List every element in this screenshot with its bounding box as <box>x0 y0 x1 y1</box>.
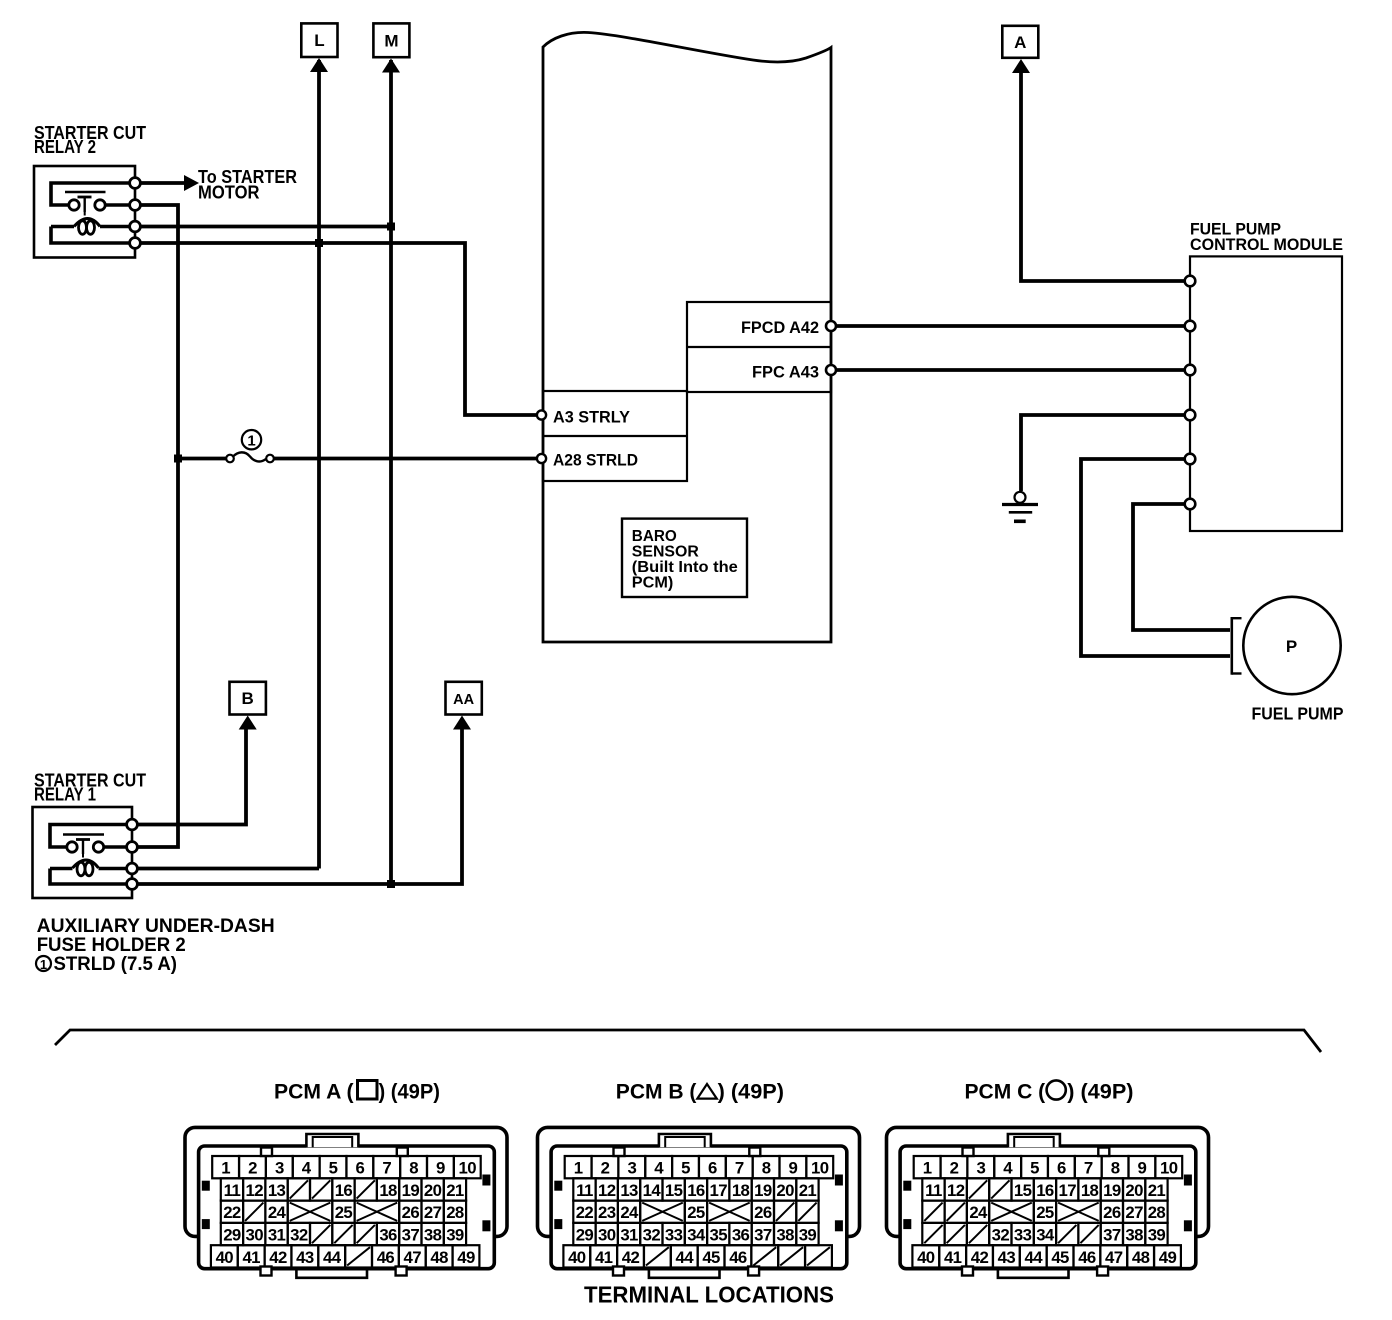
svg-text:4: 4 <box>302 1159 312 1178</box>
svg-text:7: 7 <box>735 1159 744 1178</box>
svg-text:15: 15 <box>1014 1181 1032 1200</box>
svg-text:46: 46 <box>1078 1248 1096 1267</box>
svg-text:8: 8 <box>762 1159 771 1178</box>
svg-text:47: 47 <box>404 1248 422 1267</box>
svg-text:49: 49 <box>1159 1248 1177 1267</box>
svg-text:6: 6 <box>356 1159 365 1178</box>
svg-text:41: 41 <box>595 1248 613 1267</box>
svg-text:FPCD A42: FPCD A42 <box>741 318 819 337</box>
svg-text:39: 39 <box>446 1226 464 1245</box>
svg-text:20: 20 <box>1125 1181 1143 1200</box>
svg-text:41: 41 <box>242 1248 260 1267</box>
svg-text:) (49P): ) (49P) <box>718 1081 784 1104</box>
svg-text:L: L <box>314 31 324 50</box>
svg-text:31: 31 <box>620 1226 638 1245</box>
svg-text:44: 44 <box>323 1248 342 1267</box>
svg-text:24: 24 <box>969 1203 988 1222</box>
svg-text:13: 13 <box>620 1181 638 1200</box>
svg-text:38: 38 <box>776 1226 794 1245</box>
svg-text:11: 11 <box>576 1181 593 1200</box>
svg-text:46: 46 <box>377 1248 395 1267</box>
svg-text:20: 20 <box>424 1181 442 1200</box>
svg-text:3: 3 <box>627 1159 636 1178</box>
svg-text:P: P <box>1286 637 1297 656</box>
svg-text:31: 31 <box>268 1226 286 1245</box>
svg-text:6: 6 <box>1057 1159 1066 1178</box>
svg-text:32: 32 <box>643 1226 661 1245</box>
svg-text:A3 STRLY: A3 STRLY <box>553 408 631 427</box>
svg-text:11: 11 <box>925 1181 942 1200</box>
svg-text:8: 8 <box>1111 1159 1120 1178</box>
svg-text:42: 42 <box>269 1248 287 1267</box>
svg-text:PCM B (: PCM B ( <box>616 1081 697 1104</box>
svg-text:43: 43 <box>296 1248 314 1267</box>
svg-text:5: 5 <box>329 1159 338 1178</box>
svg-text:19: 19 <box>754 1181 772 1200</box>
svg-text:38: 38 <box>424 1226 442 1245</box>
svg-text:48: 48 <box>1132 1248 1150 1267</box>
svg-text:10: 10 <box>1160 1159 1178 1178</box>
svg-text:42: 42 <box>622 1248 640 1267</box>
svg-text:39: 39 <box>799 1226 817 1245</box>
svg-text:33: 33 <box>1014 1226 1032 1245</box>
svg-text:27: 27 <box>424 1203 442 1222</box>
svg-text:17: 17 <box>1059 1181 1077 1200</box>
svg-text:AUXILIARY UNDER-DASH: AUXILIARY UNDER-DASH <box>37 916 275 937</box>
svg-text:24: 24 <box>620 1203 639 1222</box>
svg-text:SENSOR: SENSOR <box>632 544 699 561</box>
svg-text:1: 1 <box>247 433 255 450</box>
svg-text:16: 16 <box>687 1181 705 1200</box>
svg-text:30: 30 <box>246 1226 264 1245</box>
svg-text:26: 26 <box>402 1203 420 1222</box>
svg-text:TERMINAL LOCATIONS: TERMINAL LOCATIONS <box>584 1282 834 1308</box>
svg-text:5: 5 <box>681 1159 690 1178</box>
svg-text:2: 2 <box>950 1159 959 1178</box>
svg-text:43: 43 <box>998 1248 1016 1267</box>
svg-text:18: 18 <box>379 1181 397 1200</box>
svg-text:7: 7 <box>1084 1159 1093 1178</box>
svg-text:40: 40 <box>568 1248 586 1267</box>
svg-text:23: 23 <box>598 1203 616 1222</box>
svg-text:PCM C (: PCM C ( <box>965 1081 1046 1104</box>
svg-text:18: 18 <box>1081 1181 1099 1200</box>
svg-text:) (49P): ) (49P) <box>1067 1081 1133 1104</box>
svg-text:25: 25 <box>335 1203 353 1222</box>
svg-text:34: 34 <box>687 1226 706 1245</box>
svg-text:FUEL PUMP: FUEL PUMP <box>1252 704 1344 724</box>
svg-text:RELAY 2: RELAY 2 <box>34 137 96 157</box>
svg-text:6: 6 <box>708 1159 717 1178</box>
svg-text:15: 15 <box>665 1181 683 1200</box>
svg-text:37: 37 <box>754 1226 772 1245</box>
svg-text:16: 16 <box>335 1181 353 1200</box>
svg-text:12: 12 <box>246 1181 264 1200</box>
svg-text:48: 48 <box>430 1248 448 1267</box>
svg-text:PCM): PCM) <box>632 575 674 592</box>
svg-text:21: 21 <box>1148 1181 1166 1200</box>
svg-text:BARO: BARO <box>632 528 677 545</box>
svg-text:1: 1 <box>40 957 47 972</box>
svg-text:28: 28 <box>446 1203 464 1222</box>
svg-text:36: 36 <box>379 1226 397 1245</box>
svg-text:21: 21 <box>446 1181 464 1200</box>
svg-text:B: B <box>242 689 254 708</box>
svg-text:47: 47 <box>1105 1248 1123 1267</box>
svg-text:39: 39 <box>1148 1226 1166 1245</box>
svg-text:1: 1 <box>574 1159 583 1178</box>
svg-text:40: 40 <box>216 1248 234 1267</box>
svg-text:9: 9 <box>436 1159 445 1178</box>
svg-text:30: 30 <box>598 1226 616 1245</box>
svg-text:37: 37 <box>1103 1226 1121 1245</box>
svg-text:10: 10 <box>459 1159 477 1178</box>
svg-text:19: 19 <box>402 1181 420 1200</box>
svg-text:10: 10 <box>811 1159 829 1178</box>
svg-text:(Built Into the: (Built Into the <box>632 559 738 576</box>
svg-text:28: 28 <box>1148 1203 1166 1222</box>
svg-text:44: 44 <box>675 1248 694 1267</box>
svg-text:42: 42 <box>971 1248 989 1267</box>
svg-text:45: 45 <box>702 1248 720 1267</box>
svg-text:26: 26 <box>1103 1203 1121 1222</box>
svg-text:41: 41 <box>944 1248 962 1267</box>
svg-text:FUSE HOLDER 2: FUSE HOLDER 2 <box>37 935 186 956</box>
svg-text:25: 25 <box>1036 1203 1054 1222</box>
svg-text:20: 20 <box>776 1181 794 1200</box>
svg-text:27: 27 <box>1125 1203 1143 1222</box>
svg-text:9: 9 <box>1138 1159 1147 1178</box>
svg-text:MOTOR: MOTOR <box>198 182 260 202</box>
svg-text:37: 37 <box>402 1226 420 1245</box>
svg-text:7: 7 <box>382 1159 391 1178</box>
svg-text:14: 14 <box>643 1181 662 1200</box>
svg-text:34: 34 <box>1036 1226 1055 1245</box>
svg-text:44: 44 <box>1024 1248 1043 1267</box>
svg-text:A28 STRLD: A28 STRLD <box>553 451 638 470</box>
svg-text:CONTROL MODULE: CONTROL MODULE <box>1190 235 1343 254</box>
svg-text:11: 11 <box>224 1181 241 1200</box>
svg-text:3: 3 <box>275 1159 284 1178</box>
svg-text:18: 18 <box>732 1181 750 1200</box>
svg-text:29: 29 <box>223 1226 241 1245</box>
svg-text:1: 1 <box>923 1159 932 1178</box>
svg-text:22: 22 <box>576 1203 594 1222</box>
svg-text:49: 49 <box>457 1248 475 1267</box>
svg-text:46: 46 <box>729 1248 747 1267</box>
svg-text:12: 12 <box>947 1181 965 1200</box>
svg-text:13: 13 <box>268 1181 286 1200</box>
svg-text:35: 35 <box>710 1226 728 1245</box>
svg-text:RELAY 1: RELAY 1 <box>34 785 96 805</box>
svg-text:19: 19 <box>1103 1181 1121 1200</box>
svg-text:12: 12 <box>598 1181 616 1200</box>
svg-text:) (49P): ) (49P) <box>379 1081 441 1104</box>
svg-text:32: 32 <box>992 1226 1010 1245</box>
svg-text:38: 38 <box>1125 1226 1143 1245</box>
svg-text:4: 4 <box>654 1159 664 1178</box>
svg-text:8: 8 <box>409 1159 418 1178</box>
svg-text:33: 33 <box>665 1226 683 1245</box>
svg-text:36: 36 <box>732 1226 750 1245</box>
svg-text:22: 22 <box>223 1203 241 1222</box>
svg-text:25: 25 <box>687 1203 705 1222</box>
svg-text:M: M <box>384 31 398 50</box>
svg-text:1: 1 <box>221 1159 230 1178</box>
svg-text:45: 45 <box>1051 1248 1069 1267</box>
svg-text:2: 2 <box>601 1159 610 1178</box>
svg-text:24: 24 <box>268 1203 287 1222</box>
svg-text:AA: AA <box>453 692 474 708</box>
svg-text:STRLD (7.5 A): STRLD (7.5 A) <box>54 954 178 975</box>
svg-text:29: 29 <box>576 1226 594 1245</box>
svg-text:2: 2 <box>248 1159 257 1178</box>
svg-text:A: A <box>1014 33 1026 52</box>
svg-text:FPC A43: FPC A43 <box>752 363 819 382</box>
svg-text:26: 26 <box>754 1203 772 1222</box>
svg-text:9: 9 <box>789 1159 798 1178</box>
svg-text:5: 5 <box>1030 1159 1039 1178</box>
svg-text:40: 40 <box>917 1248 935 1267</box>
svg-text:32: 32 <box>290 1226 308 1245</box>
svg-text:3: 3 <box>976 1159 985 1178</box>
svg-text:21: 21 <box>799 1181 817 1200</box>
svg-text:16: 16 <box>1036 1181 1054 1200</box>
svg-text:17: 17 <box>710 1181 728 1200</box>
svg-text:PCM A (: PCM A ( <box>274 1081 354 1104</box>
svg-text:4: 4 <box>1003 1159 1013 1178</box>
